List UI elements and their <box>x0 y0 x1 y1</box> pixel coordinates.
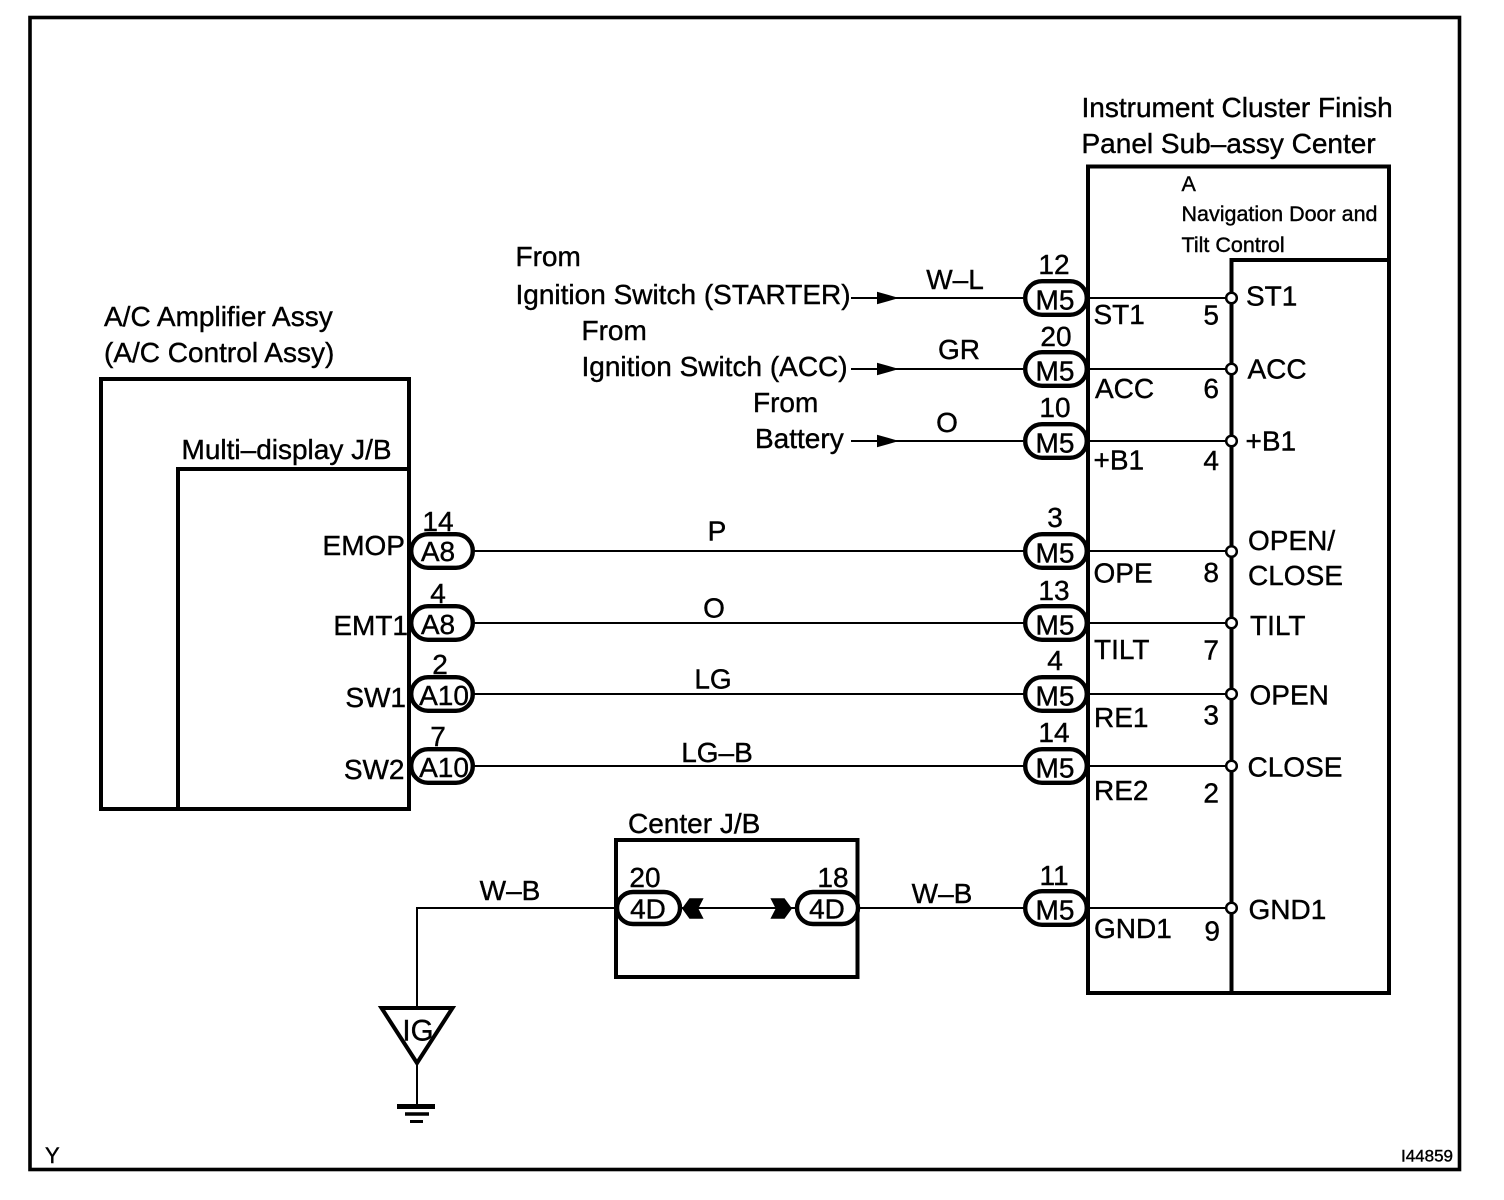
svg-text:20: 20 <box>1040 321 1071 352</box>
svg-text:11: 11 <box>1039 860 1068 891</box>
svg-text:A/C Amplifier Assy: A/C Amplifier Assy <box>104 301 333 332</box>
connector A8 pin 14 oval (EMOP) <box>411 534 473 568</box>
svg-text:CLOSE: CLOSE <box>1248 560 1343 591</box>
wire O from A8 pin 4 EMT1 to M5 pin 13 <box>442 622 1056 624</box>
Multi-display J/B box <box>178 469 409 809</box>
svg-text:OPEN: OPEN <box>1250 680 1329 711</box>
wire W-L from ignition switch (STARTER) to M5 pin 12 <box>851 297 1023 299</box>
svg-text:W–B: W–B <box>480 875 541 906</box>
wire between 4D pin 20 and 4D pin 18 inside Center J/B <box>680 907 797 909</box>
connector M5 pin 10 oval <box>1025 424 1087 458</box>
svg-text:4: 4 <box>1047 645 1063 676</box>
Center J/B box <box>616 840 858 977</box>
connector M5 pin 12 oval <box>1025 281 1087 315</box>
svg-text:EMT1: EMT1 <box>333 610 408 641</box>
device pin 4 circle (+B1) <box>1226 436 1237 447</box>
svg-text:CLOSE: CLOSE <box>1248 752 1343 783</box>
connector M5 pin 14 oval <box>1025 749 1087 783</box>
svg-text:8: 8 <box>1203 557 1219 588</box>
svg-text:O: O <box>703 593 725 624</box>
svg-text:5: 5 <box>1203 300 1219 331</box>
svg-text:4: 4 <box>1203 445 1219 476</box>
wire P from A8 pin 14 EMOP to M5 pin 3 <box>442 550 1056 552</box>
wire RE2 from M5 to device pin 2 <box>1088 765 1232 767</box>
connector 4D pin 20 oval <box>617 892 680 924</box>
svg-text:Panel Sub–assy Center: Panel Sub–assy Center <box>1082 128 1376 159</box>
svg-text:M5: M5 <box>1036 285 1075 316</box>
svg-text:18: 18 <box>817 862 848 893</box>
wire TILT from M5 to device pin 7 <box>1088 622 1232 624</box>
wire from IG triangle apex to earth <box>416 1065 418 1104</box>
svg-text:SW1: SW1 <box>345 682 406 713</box>
svg-text:O: O <box>936 407 958 438</box>
chevron arrow pointing right at 4D pin 18 <box>770 898 792 919</box>
svg-text:ACC: ACC <box>1248 354 1307 385</box>
svg-text:7: 7 <box>430 721 446 752</box>
wire GR from ignition switch (ACC) to M5 pin 20 <box>851 368 1023 370</box>
ground symbol IG triangle <box>382 1008 453 1063</box>
svg-text:(A/C Control Assy): (A/C Control Assy) <box>104 337 334 368</box>
svg-text:Battery: Battery <box>755 423 844 454</box>
wire W-B from 4D pin 18 to M5 pin 11 <box>857 907 1056 909</box>
svg-text:From: From <box>516 241 581 272</box>
svg-text:A8: A8 <box>421 609 455 640</box>
A/C Amplifier Assy box <box>101 379 409 809</box>
wire LG from A10 pin 2 SW1 to M5 pin 4 <box>442 693 1056 695</box>
svg-text:4: 4 <box>430 578 446 609</box>
svg-text:Ignition Switch (STARTER): Ignition Switch (STARTER) <box>516 279 851 310</box>
svg-text:10: 10 <box>1039 392 1070 423</box>
chevron arrow pointing left at 4D pin 20 <box>682 898 704 919</box>
svg-text:SW2: SW2 <box>344 754 405 785</box>
svg-text:M5: M5 <box>1036 610 1075 641</box>
svg-text:Instrument Cluster Finish: Instrument Cluster Finish <box>1082 92 1393 123</box>
svg-text:Tilt Control: Tilt Control <box>1182 233 1285 257</box>
device pin 7 circle (TILT) <box>1226 618 1237 629</box>
svg-text:GR: GR <box>938 334 980 365</box>
svg-text:W–L: W–L <box>926 264 984 295</box>
svg-text:M5: M5 <box>1036 538 1075 569</box>
svg-text:2: 2 <box>1203 778 1219 809</box>
svg-text:12: 12 <box>1038 249 1069 280</box>
connector 4D pin 18 oval <box>797 892 858 924</box>
svg-text:6: 6 <box>1203 373 1219 404</box>
connector M5 pin 4 oval <box>1025 677 1087 711</box>
connector A10 pin 7 oval (SW2) <box>411 749 473 783</box>
svg-text:M5: M5 <box>1036 681 1075 712</box>
device pin 8 circle (OPEN/CLOSE) <box>1226 546 1237 557</box>
svg-text:14: 14 <box>1038 717 1069 748</box>
wire RE1 from M5 to device pin 3 <box>1088 693 1232 695</box>
svg-text:9: 9 <box>1204 916 1220 947</box>
svg-text:W–B: W–B <box>912 878 973 909</box>
svg-text:A10: A10 <box>419 752 469 783</box>
svg-text:GND1: GND1 <box>1249 894 1327 925</box>
svg-text:ACC: ACC <box>1095 373 1154 404</box>
arrow into GR wire <box>877 363 899 376</box>
wire ST1 from M5 to device pin 5 <box>1088 297 1232 299</box>
svg-text:20: 20 <box>629 862 660 893</box>
svg-text:A: A <box>1182 172 1197 196</box>
svg-text:OPE: OPE <box>1094 558 1153 589</box>
svg-text:I44859: I44859 <box>1401 1147 1453 1166</box>
svg-text:From: From <box>582 315 647 346</box>
wire +B1 from M5 to device pin 4 <box>1088 440 1232 442</box>
svg-text:Ignition Switch (ACC): Ignition Switch (ACC) <box>582 351 848 382</box>
connector M5 pin 11 oval <box>1025 891 1087 925</box>
svg-text:TILT: TILT <box>1250 610 1305 641</box>
svg-text:3: 3 <box>1047 502 1063 533</box>
wire ACC from M5 to device pin 6 <box>1088 368 1232 370</box>
svg-text:LG–B: LG–B <box>681 737 753 768</box>
connector A10 pin 2 oval (SW1) <box>411 677 473 711</box>
Navigation Door and Tilt Control device box <box>1232 260 1390 993</box>
svg-text:4D: 4D <box>630 894 666 925</box>
connector M5 pin 13 oval <box>1025 606 1087 640</box>
svg-text:Y: Y <box>45 1143 60 1168</box>
arrow into W-L wire <box>877 292 899 305</box>
svg-text:LG: LG <box>694 664 731 695</box>
svg-text:7: 7 <box>1203 635 1219 666</box>
earth ground symbol <box>397 1104 435 1109</box>
Instrument Cluster Finish Panel Sub-assy Center box <box>1088 167 1389 994</box>
svg-text:IG: IG <box>402 1015 433 1048</box>
svg-text:GND1: GND1 <box>1094 913 1172 944</box>
svg-text:+B1: +B1 <box>1094 445 1145 476</box>
device pin 3 circle (OPEN) <box>1226 689 1237 700</box>
svg-text:13: 13 <box>1038 575 1069 606</box>
svg-text:RE1: RE1 <box>1094 702 1148 733</box>
svg-text:OPEN/: OPEN/ <box>1248 525 1335 556</box>
wire W-B from IG ground to 4D pin 20, horizontal run <box>417 907 648 909</box>
svg-text:Navigation Door and: Navigation Door and <box>1182 202 1378 226</box>
wire OPE from M5 to device pin 8 <box>1088 550 1232 552</box>
device pin 2 circle (CLOSE) <box>1226 761 1237 772</box>
device pin 9 circle (GND1) <box>1226 903 1237 914</box>
svg-text:M5: M5 <box>1036 895 1075 926</box>
wire GND1 from M5 to device pin 9 <box>1088 907 1232 909</box>
svg-text:+B1: +B1 <box>1246 426 1297 457</box>
svg-text:2: 2 <box>432 649 448 680</box>
device pin 6 circle (ACC) <box>1226 364 1237 375</box>
svg-text:TILT: TILT <box>1094 634 1149 665</box>
wire O from battery to M5 pin 10 <box>851 440 1023 442</box>
svg-text:A8: A8 <box>421 536 455 567</box>
device pin 5 circle (ST1) <box>1226 293 1237 304</box>
svg-text:Center J/B: Center J/B <box>628 808 760 839</box>
svg-text:From: From <box>753 387 818 418</box>
arrow into O wire <box>877 435 899 448</box>
svg-text:3: 3 <box>1203 700 1219 731</box>
svg-text:A10: A10 <box>419 680 469 711</box>
svg-text:M5: M5 <box>1036 428 1075 459</box>
svg-text:Multi–display J/B: Multi–display J/B <box>182 434 392 465</box>
svg-text:RE2: RE2 <box>1094 775 1148 806</box>
wire LG-B from A10 pin 7 SW2 to M5 pin 14 <box>442 765 1056 767</box>
svg-text:ST1: ST1 <box>1246 281 1297 312</box>
connector M5 pin 20 oval <box>1025 352 1087 386</box>
svg-text:4D: 4D <box>809 894 845 925</box>
svg-text:ST1: ST1 <box>1094 299 1145 330</box>
svg-text:P: P <box>708 516 727 547</box>
connector A8 pin 4 oval (EMT1) <box>411 606 473 640</box>
wire W-B vertical drop to IG triangle <box>416 907 418 1008</box>
connector M5 pin 3 oval <box>1025 534 1087 568</box>
svg-text:M5: M5 <box>1036 356 1075 387</box>
svg-text:M5: M5 <box>1036 753 1075 784</box>
svg-text:14: 14 <box>422 506 453 537</box>
svg-text:EMOP: EMOP <box>323 530 405 561</box>
